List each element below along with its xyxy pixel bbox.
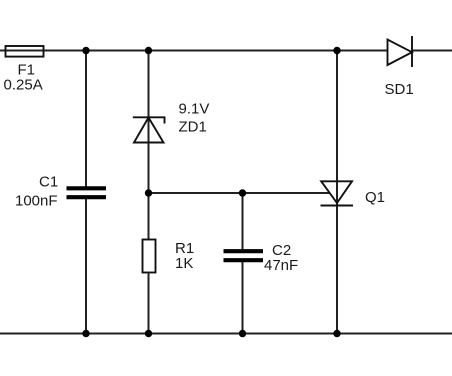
wire middle gate net (149, 192, 330, 194)
svg-text:100nF: 100nF (15, 193, 58, 210)
wire C1 branch bottom (85, 198, 87, 334)
wire C2 branch top (242, 193, 244, 250)
wire R1 branch bottom (148, 273, 150, 334)
svg-text:0.25A: 0.25A (4, 77, 43, 94)
svg-text:ZD1: ZD1 (179, 119, 207, 136)
junction dot top ZD1 (145, 47, 152, 54)
thyristor Q1 (321, 181, 354, 205)
svg-text:47nF: 47nF (264, 257, 298, 274)
svg-text:C1: C1 (39, 174, 58, 191)
wire R1 branch top (148, 193, 150, 240)
junction dot bottom C1 (82, 330, 89, 337)
wire Q1 branch (336, 51, 338, 334)
fuse F1 (6, 46, 44, 57)
wire bottom rail (0, 333, 452, 335)
wire top rail left segment (0, 50, 388, 52)
wire C1 branch top (85, 51, 87, 188)
svg-text:1K: 1K (175, 255, 193, 272)
svg-text:Q1: Q1 (365, 189, 385, 206)
junction dot middle ZD1-R1 (145, 189, 152, 196)
capacitor C1 (67, 188, 107, 197)
junction dot bottom Q1 (333, 330, 340, 337)
resistor R1 (143, 240, 156, 273)
junction dot bottom R1 (145, 330, 152, 337)
junction dot top Q1 (333, 47, 340, 54)
junction dot top C1 (82, 47, 89, 54)
wire zener branch (148, 51, 150, 194)
wire top rail right segment (412, 50, 452, 52)
svg-text:SD1: SD1 (385, 81, 414, 98)
zener diode ZD1 (133, 117, 165, 142)
svg-text:9.1V: 9.1V (179, 101, 210, 118)
junction dot middle C2 (239, 189, 246, 196)
diode SD1 (388, 36, 413, 67)
junction dot bottom C2 (239, 330, 246, 337)
capacitor C2 (224, 251, 264, 260)
wire C2 branch bottom (242, 261, 244, 334)
